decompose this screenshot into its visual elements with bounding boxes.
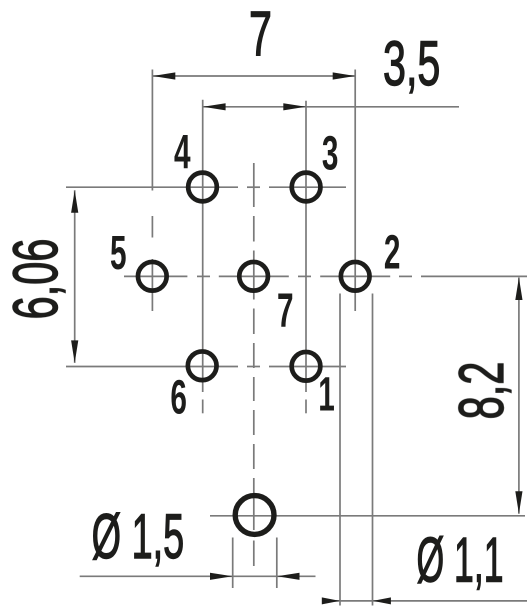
svg-text:Ø 1,1: Ø 1,1 [416, 525, 503, 595]
svg-text:1: 1 [318, 368, 335, 421]
svg-text:2: 2 [384, 226, 401, 279]
pin 2 tangent extension lines (for dia 1,1) [340, 294, 373, 606]
svg-text:6: 6 [170, 371, 187, 424]
svg-text:4: 4 [174, 127, 191, 180]
svg-text:3: 3 [322, 127, 339, 180]
bottom circle tangent extension lines (for dia 1,5) [233, 538, 277, 589]
pin 7 (center) [239, 262, 268, 291]
pin 6 [188, 351, 217, 380]
pin 3 [292, 173, 321, 202]
pin 5 [138, 262, 167, 291]
svg-text:7: 7 [277, 285, 294, 338]
pin 1 [292, 352, 321, 381]
dimension line 7 (top) [153, 72, 355, 79]
extension line column A (pin 5 / dim 7 left) [151, 70, 153, 312]
dimension line dia 1,1 (bottom right) [322, 597, 527, 604]
mounting hole (bottom circle) [235, 496, 274, 535]
svg-text:8,2: 8,2 [447, 362, 517, 420]
dimension line 6,06 (left vertical) [71, 190, 78, 363]
svg-text:6,06: 6,06 [2, 239, 72, 320]
centerline row 3 (pins 6,1) [66, 366, 346, 368]
svg-text:5: 5 [110, 227, 127, 280]
extension line column B (pins 4,6 / dim 3,5 left) [202, 100, 204, 414]
extension line column D (pins 3,1 / dim 3,5 right) [305, 101, 307, 414]
dimension line dia 1,5 (bottom left) [80, 573, 316, 580]
svg-text:3,5: 3,5 [383, 29, 440, 99]
svg-text:7: 7 [249, 0, 272, 70]
centerline bottom row (mounting hole) [210, 515, 525, 517]
pin 2 [341, 262, 370, 291]
pin 4 [188, 173, 217, 202]
extension line column E (pin 2 / dim 7 right) [354, 70, 356, 312]
dimension line 3,5 [203, 103, 459, 110]
centerline row 2 (pins 5,7,2) [124, 275, 527, 277]
centerline row 1 (pins 4,3) [66, 186, 346, 188]
centerline column C (center axis) [253, 163, 255, 566]
svg-text:Ø 1,5: Ø 1,5 [92, 502, 184, 572]
dimension line 8,2 (right vertical) [515, 278, 522, 514]
